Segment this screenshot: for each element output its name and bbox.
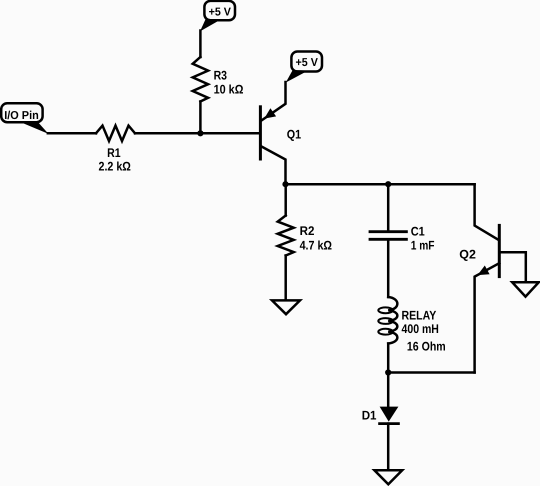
svg-text:R2: R2	[300, 224, 315, 238]
svg-text:D1: D1	[362, 409, 377, 423]
svg-text:2.2 kΩ: 2.2 kΩ	[99, 159, 131, 173]
svg-text:1 mF: 1 mF	[411, 239, 435, 253]
svg-text:Q1: Q1	[287, 127, 301, 141]
svg-text:10 kΩ: 10 kΩ	[214, 83, 244, 97]
svg-text:+5 V: +5 V	[209, 7, 232, 19]
svg-text:+5 V: +5 V	[296, 57, 319, 69]
svg-text:400 mH: 400 mH	[402, 322, 439, 336]
svg-text:C1: C1	[411, 224, 425, 238]
svg-text:R1: R1	[107, 146, 121, 160]
svg-text:RELAY: RELAY	[402, 309, 437, 323]
svg-text:R3: R3	[214, 69, 227, 83]
svg-text:4.7 kΩ: 4.7 kΩ	[300, 238, 332, 252]
svg-text:Q2: Q2	[459, 247, 476, 261]
svg-text:I/O Pin: I/O Pin	[4, 110, 39, 122]
svg-text:16 Ohm: 16 Ohm	[407, 339, 446, 353]
